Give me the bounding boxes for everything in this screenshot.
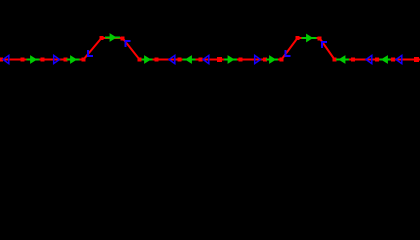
node M7 <box>121 37 125 41</box>
arrow G5 left <box>183 55 196 64</box>
node M3 <box>41 58 45 62</box>
node M4 <box>64 58 68 62</box>
node M18 <box>333 58 337 62</box>
node M6 <box>100 36 104 40</box>
arrow G9 left <box>336 55 349 64</box>
node M5 <box>82 58 86 62</box>
node M13 <box>239 58 243 62</box>
arrow B8 down-left on rising edge 2 <box>286 50 291 56</box>
arrow B7 right <box>255 55 261 63</box>
wire: red string polyline with two trapezoid pulses <box>0 38 420 60</box>
arrow B10 left <box>366 55 372 63</box>
arrow B9 up-left on falling edge 2 <box>322 42 327 48</box>
node M15 <box>280 58 284 62</box>
node M14 <box>263 58 267 62</box>
node M20 <box>375 58 379 62</box>
arrow G1 right <box>27 55 40 64</box>
arrow B6 left <box>203 55 209 63</box>
node M21 <box>391 58 395 62</box>
arrow B2 right <box>54 55 60 63</box>
node M12 <box>217 57 222 62</box>
node M19 <box>351 58 355 62</box>
arrow G4 right <box>142 55 153 64</box>
node M8 <box>138 58 142 62</box>
node M1 <box>0 58 3 62</box>
node M10 <box>178 58 182 62</box>
blue hollow arrowheads <box>3 41 402 64</box>
arrow B3 down-left on rising edge 1 <box>88 50 93 56</box>
arrow G8 right on plateau 2 <box>302 34 317 43</box>
node M9 <box>155 58 159 62</box>
node M16 <box>296 36 300 40</box>
node M2 <box>21 58 25 62</box>
arrow G6 right <box>224 55 237 64</box>
arrow B4 up-left on falling edge 1 <box>126 41 131 47</box>
node M22 <box>414 57 419 62</box>
node M17 <box>318 37 322 41</box>
arrow B1 left <box>3 55 9 63</box>
arrow G7 right <box>266 55 278 64</box>
node markers: red squares along the string <box>0 36 419 62</box>
arrow G10 left <box>380 55 391 64</box>
arrow B11 left <box>396 55 402 63</box>
arrow B5 left <box>169 55 175 63</box>
green velocity arrows (shaft + filled head) <box>27 33 391 64</box>
arrow G2 right <box>67 55 80 64</box>
arrow G3 right on plateau 1 <box>105 33 120 42</box>
node M11 <box>199 58 203 62</box>
